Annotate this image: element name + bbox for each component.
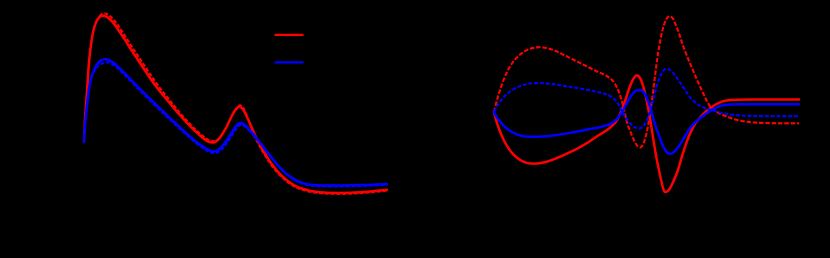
legend: red line sample: [275, 34, 304, 36]
left plot: red solid curve: [84, 16, 387, 193]
left plot: red dotted curve: [84, 13, 387, 193]
right plot: red solid curve: [494, 75, 799, 192]
left plot: blue solid curve: [84, 59, 387, 185]
legend: blue line sample: [275, 61, 304, 63]
right plot: blue solid curve: [494, 90, 799, 154]
left plot: blue dotted curve: [84, 62, 387, 186]
right plot: red dotted curve: [494, 16, 799, 147]
right plot: blue dotted curve: [494, 69, 799, 129]
